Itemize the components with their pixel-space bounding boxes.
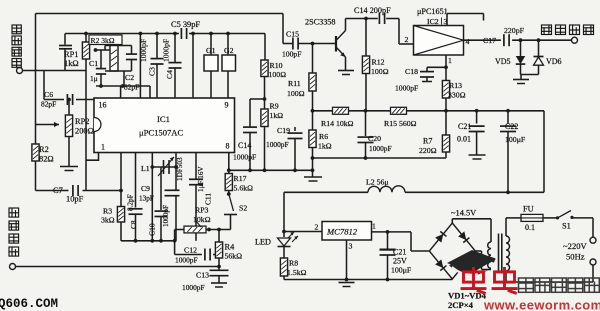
svg-text:1: 1 xyxy=(372,222,376,231)
svg-text:100Ω: 100Ω xyxy=(269,70,287,79)
node R10/R9 junction xyxy=(263,97,267,101)
svg-text:C12: C12 xyxy=(184,246,197,255)
wire to upper AC terminal xyxy=(592,218,594,237)
svg-text:VD6: VD6 xyxy=(546,57,562,66)
transistor Q1 2SC3358 xyxy=(335,36,337,52)
resistor R2 82ohm xyxy=(32,144,39,161)
ground below RP2 xyxy=(60,166,78,168)
svg-text:0.1: 0.1 xyxy=(525,223,535,232)
svg-text:G1: G1 xyxy=(206,46,216,55)
svg-text:C21: C21 xyxy=(393,248,406,257)
capacitor C17 220pF xyxy=(503,34,505,46)
ground below emitter xyxy=(345,57,347,71)
svg-text:1000pF: 1000pF xyxy=(395,84,418,93)
svg-text:R2: R2 xyxy=(39,145,49,154)
capacitor C22 100uF xyxy=(507,111,509,124)
svg-text:G2: G2 xyxy=(224,46,234,55)
svg-text:2: 2 xyxy=(315,223,319,232)
diode VD1 on bridge xyxy=(435,231,446,242)
svg-text:C1: C1 xyxy=(89,59,98,68)
diode VD5 xyxy=(520,40,522,56)
svg-text:R12: R12 xyxy=(372,58,385,67)
resistor R10 100ohm xyxy=(261,60,268,77)
svg-text:8.2pF: 8.2pF xyxy=(127,194,135,211)
wire IC pin8 column xyxy=(228,153,230,171)
node VD taps xyxy=(519,38,523,42)
capacitor C13 1000pF to ground xyxy=(217,265,221,269)
wire IC2 pin1 down xyxy=(445,55,447,67)
crystal G2 xyxy=(227,34,229,56)
svg-text:C21: C21 xyxy=(458,122,471,131)
svg-text:1.5kΩ: 1.5kΩ xyxy=(287,268,307,277)
svg-text:1: 1 xyxy=(101,143,105,152)
op-amp IC1 uPC1507AC xyxy=(94,98,235,153)
svg-text:220pF: 220pF xyxy=(504,26,525,35)
svg-text:L1: L1 xyxy=(141,164,150,173)
resistor R6 1kohm xyxy=(312,111,314,130)
svg-text:IC1: IC1 xyxy=(157,114,170,124)
svg-text:IC2: IC2 xyxy=(427,17,439,26)
capacitor C3 1000pF xyxy=(156,34,158,59)
svg-text:1μF 16V: 1μF 16V xyxy=(197,166,205,192)
svg-text:MC7812: MC7812 xyxy=(326,227,358,237)
svg-text:R14 10kΩ: R14 10kΩ xyxy=(321,119,354,128)
svg-text:C14 200pF: C14 200pF xyxy=(354,6,391,15)
svg-text:1kΩ: 1kΩ xyxy=(270,111,284,120)
diode VD6 xyxy=(538,40,540,56)
svg-text:1000pF: 1000pF xyxy=(139,39,148,62)
wire mid rail C xyxy=(229,169,313,171)
wiper arrow into RP2 xyxy=(36,124,60,126)
svg-text:1kΩ: 1kΩ xyxy=(318,142,332,151)
svg-text:13pF: 13pF xyxy=(139,195,154,203)
svg-text:R3: R3 xyxy=(103,207,112,216)
svg-text:8: 8 xyxy=(226,142,230,151)
wire pin column x176 through C9 xyxy=(175,153,177,190)
svg-text:C17: C17 xyxy=(483,36,496,45)
svg-text:R8: R8 xyxy=(289,259,298,268)
wire video input to C6 xyxy=(43,71,45,100)
svg-text:R7: R7 xyxy=(423,137,432,146)
svg-text:9: 9 xyxy=(225,101,229,110)
svg-text:25V: 25V xyxy=(393,257,407,266)
switch S2 xyxy=(227,192,231,196)
wire bottom rail xyxy=(284,279,452,281)
wire IC1 pin1 stub xyxy=(86,153,99,161)
svg-text:VD5: VD5 xyxy=(495,57,511,66)
capacitor C18 1000pF xyxy=(427,66,446,68)
wire lower-left rail xyxy=(121,240,175,242)
wire AC bottom return xyxy=(592,265,594,282)
label audio-input (Chinese vertical text) xyxy=(9,208,19,256)
capacitor C14 1000pF xyxy=(250,98,265,100)
svg-text:2CP×4: 2CP×4 xyxy=(448,300,474,310)
resistor R13 330ohm xyxy=(445,67,447,80)
resistor R3 3kohm xyxy=(120,191,122,207)
crystal G1 xyxy=(210,34,212,56)
wire pin column x152 with L1 tap xyxy=(151,153,153,241)
svg-text:2SC3358: 2SC3358 xyxy=(305,18,335,27)
LED indicator xyxy=(283,232,285,238)
terminal video input xyxy=(17,68,23,74)
svg-text:50Hz: 50Hz xyxy=(566,252,585,262)
svg-text:1000pF: 1000pF xyxy=(182,283,205,292)
svg-text:C11: C11 xyxy=(204,193,213,205)
capacitor input coupling xyxy=(59,45,72,47)
wire column to IC pin (x140) xyxy=(139,34,141,99)
capacitor C9 13pF xyxy=(165,189,180,191)
wire bus right corner to R10 xyxy=(264,34,266,61)
wire C1/C2 bottom line xyxy=(96,85,150,87)
svg-text:C8: C8 xyxy=(129,220,138,229)
svg-text:C4: C4 xyxy=(165,70,174,79)
wire trimmer bottom tie xyxy=(105,70,132,72)
transformer core xyxy=(498,234,500,274)
wire right drop from bus to L2 rail xyxy=(543,111,545,193)
svg-text:C6: C6 xyxy=(44,90,53,99)
wire rail B xyxy=(313,157,447,159)
wire bridge left vertex to regulator line xyxy=(410,232,412,251)
svg-text:1: 1 xyxy=(448,56,452,65)
capacitor C15 100pF xyxy=(292,38,294,50)
terminal RF output xyxy=(572,37,578,43)
svg-text:3: 3 xyxy=(349,242,353,251)
wire top border corner down to C15 xyxy=(282,14,284,44)
wire RP1 column down-left xyxy=(85,71,87,191)
svg-text:C7: C7 xyxy=(53,186,63,195)
svg-text:2: 2 xyxy=(405,35,409,44)
capacitor C21 0.01 (decoupling) xyxy=(476,111,478,124)
svg-text:~220V: ~220V xyxy=(563,241,588,251)
capacitor C14 200pF (RF) xyxy=(366,18,378,20)
svg-text:1DF503: 1DF503 xyxy=(176,157,184,181)
svg-text:220Ω: 220Ω xyxy=(419,146,437,155)
terminal AC upper xyxy=(590,237,596,243)
svg-text:RP2: RP2 xyxy=(75,117,89,126)
trimmer C2' hatched box xyxy=(110,46,118,72)
svg-text:82Ω: 82Ω xyxy=(39,155,54,164)
wire column after C5 (x193) xyxy=(192,34,194,99)
svg-text:C18: C18 xyxy=(405,67,418,76)
svg-text:1000pF: 1000pF xyxy=(369,144,392,153)
potentiometer RP3 10kohm xyxy=(174,230,176,255)
resistor R8 1.5kohm xyxy=(283,247,285,259)
wire IC2 pin4 output xyxy=(464,39,501,41)
resistor R2 3kohm (boxed label) xyxy=(89,35,122,45)
resistor R7 220ohm xyxy=(445,111,447,135)
svg-text:R9: R9 xyxy=(270,102,279,111)
diode VD3 on bridge xyxy=(435,259,446,270)
potentiometer RP1 1kohm xyxy=(85,34,87,43)
resistor R17 5.6kohm xyxy=(228,170,230,173)
wire diode tie and ground xyxy=(521,74,539,76)
wire bus left corner with coupling cap xyxy=(64,34,66,45)
capacitor C4 1000pF xyxy=(174,34,176,63)
watermark graduation cap logo xyxy=(447,250,496,273)
fuse FU 0.1 xyxy=(521,214,543,221)
wire IC2 top pin3 to power hook xyxy=(446,14,448,26)
bridge rectifier VD1-VD4 xyxy=(429,223,475,279)
ground on rail C xyxy=(312,158,314,177)
svg-text:μPC1651: μPC1651 xyxy=(417,7,448,16)
svg-text:~14.5V: ~14.5V xyxy=(451,209,476,218)
wire collector up and right xyxy=(345,19,347,31)
svg-text:C13: C13 xyxy=(196,271,209,280)
svg-text:5.6kΩ: 5.6kΩ xyxy=(234,184,254,193)
transformer secondary winding xyxy=(506,236,510,271)
label RF-output (Chinese) xyxy=(542,25,594,35)
svg-text:RP1: RP1 xyxy=(64,50,78,59)
svg-text:R15 560Ω: R15 560Ω xyxy=(384,119,417,128)
resistor R14 10kohm xyxy=(333,107,349,114)
wire to MC7812 pin2 xyxy=(284,231,322,233)
svg-text:FU: FU xyxy=(523,205,534,214)
wire top border xyxy=(36,13,284,15)
svg-text:1μ: 1μ xyxy=(90,74,98,83)
wire MC7812 pin3 to ground xyxy=(346,240,348,280)
varactor trimmer cap xyxy=(152,166,176,168)
svg-text:R17: R17 xyxy=(234,174,247,183)
svg-text:1kΩ: 1kΩ xyxy=(64,59,79,68)
svg-text:4: 4 xyxy=(466,37,470,46)
op-amp IC2 uPC1651 xyxy=(414,26,464,56)
svg-text:C10: C10 xyxy=(148,223,157,236)
voltage regulator MC7812 xyxy=(322,222,372,241)
svg-text:C19: C19 xyxy=(277,126,290,135)
capacitor C2 xyxy=(131,46,133,55)
wire audio input line xyxy=(16,266,220,268)
svg-text:100pF: 100pF xyxy=(282,50,301,59)
capacitor C8 8.2pF xyxy=(135,153,137,208)
svg-text:C14: C14 xyxy=(238,141,251,150)
terminal AC lower xyxy=(590,259,596,265)
svg-text:330Ω: 330Ω xyxy=(448,91,466,100)
watermark red character chong 1 xyxy=(461,267,487,293)
capacitor C5 39pF xyxy=(180,28,182,39)
watermark gray site name (Chinese) xyxy=(519,278,600,292)
wire bridge right vertex link xyxy=(475,250,481,252)
svg-text:R13: R13 xyxy=(449,81,462,90)
svg-text:S2: S2 xyxy=(239,204,247,213)
wire mid bus y111 xyxy=(313,110,333,112)
svg-text:R4: R4 xyxy=(225,243,236,252)
terminal audio input xyxy=(10,264,16,270)
wire L2 rail left drop xyxy=(283,192,285,231)
capacitor C12 1000pF xyxy=(175,254,202,256)
wire trimmer/C2 top tie xyxy=(94,48,98,52)
svg-text:16: 16 xyxy=(99,101,107,110)
capacitor C19 1000pF xyxy=(294,127,296,131)
svg-text:10pF: 10pF xyxy=(66,195,84,204)
svg-text:100Ω: 100Ω xyxy=(371,67,389,76)
resistor R9 1kohm xyxy=(264,99,266,109)
capacitor C6 82pF xyxy=(66,94,68,105)
watermark red character chong 2 xyxy=(492,267,518,293)
svg-text:1000pF: 1000pF xyxy=(266,140,289,149)
svg-text:LED: LED xyxy=(255,238,271,247)
wire pin column x121 to R3 xyxy=(120,153,122,191)
switch S1 xyxy=(543,217,558,219)
svg-text:R10: R10 xyxy=(270,61,283,70)
potentiometer RP2 200ohm xyxy=(67,98,71,102)
svg-text:1000pF: 1000pF xyxy=(162,205,170,227)
wire bridge top to transformer xyxy=(451,219,453,223)
svg-text:100Ω: 100Ω xyxy=(287,89,305,98)
svg-text:1000pF: 1000pF xyxy=(175,256,198,265)
svg-text:www.eeworm.com: www.eeworm.com xyxy=(483,298,600,311)
svg-text:C9: C9 xyxy=(141,184,150,193)
svg-text:L2 56μ: L2 56μ xyxy=(366,178,389,187)
wire C7 line xyxy=(36,190,69,192)
svg-text:C2: C2 xyxy=(125,73,134,82)
svg-text:C15: C15 xyxy=(286,30,299,39)
wire left border upper xyxy=(35,14,37,145)
svg-text:0.01: 0.01 xyxy=(457,135,471,144)
svg-text:56kΩ: 56kΩ xyxy=(225,252,243,261)
capacitor C21 100uF 25V electrolytic xyxy=(387,232,389,249)
label video-input (Chinese vertical text) xyxy=(12,25,21,67)
wire main top bus xyxy=(65,33,179,35)
svg-text:82pF: 82pF xyxy=(41,100,56,109)
capacitor C20 1000pF xyxy=(365,111,367,136)
svg-text:R2 3kΩ: R2 3kΩ xyxy=(91,36,115,45)
svg-text:R6: R6 xyxy=(319,132,328,141)
wire MC7812 output right xyxy=(372,231,412,233)
svg-text:82pF: 82pF xyxy=(124,83,139,92)
diode VD4 on bridge xyxy=(458,259,469,270)
svg-text:100μF: 100μF xyxy=(391,266,412,275)
inductor L2 56uH xyxy=(284,191,368,193)
wire left border lower xyxy=(35,161,37,191)
svg-text:1000pF: 1000pF xyxy=(161,39,170,62)
wire R11 column xyxy=(312,44,314,74)
resistor R11 100ohm xyxy=(309,73,316,91)
svg-text:R11: R11 xyxy=(288,79,301,88)
svg-text:C22: C22 xyxy=(505,122,518,131)
wire secondary top to fuse xyxy=(505,218,507,236)
svg-text:C5 39pF: C5 39pF xyxy=(171,20,200,29)
svg-text:S1: S1 xyxy=(562,222,571,231)
capacitor C10 1000pF xyxy=(160,167,162,210)
capacitor C11 1uF 16V electrolytic xyxy=(195,153,197,179)
node bus junctions xyxy=(84,32,88,36)
svg-text:10kΩ: 10kΩ xyxy=(193,215,211,224)
capacitor C7 10pF xyxy=(72,185,74,196)
svg-text:1000pF: 1000pF xyxy=(233,153,256,162)
resistor R15 560ohm xyxy=(391,107,407,114)
transformer primary winding xyxy=(488,242,491,268)
svg-text:3kΩ: 3kΩ xyxy=(101,216,115,225)
svg-text:μPC1507AC: μPC1507AC xyxy=(139,128,184,138)
svg-text:C20: C20 xyxy=(368,134,381,143)
svg-text:RP3: RP3 xyxy=(195,206,209,215)
resistor R12 100ohm xyxy=(365,19,367,57)
wire bridge bottom vertex to rail xyxy=(451,278,453,281)
svg-text:C3: C3 xyxy=(148,67,157,76)
svg-text:100μF: 100μF xyxy=(505,135,526,144)
svg-text:Q606.COM: Q606.COM xyxy=(0,297,58,311)
capacitor C1 1uF electrolytic xyxy=(100,50,102,69)
resistor R4 56kohm xyxy=(217,228,221,232)
svg-text:200Ω: 200Ω xyxy=(75,127,94,136)
wire to IC2 pin2 xyxy=(398,19,400,45)
diode VD2 on bridge xyxy=(458,231,469,242)
